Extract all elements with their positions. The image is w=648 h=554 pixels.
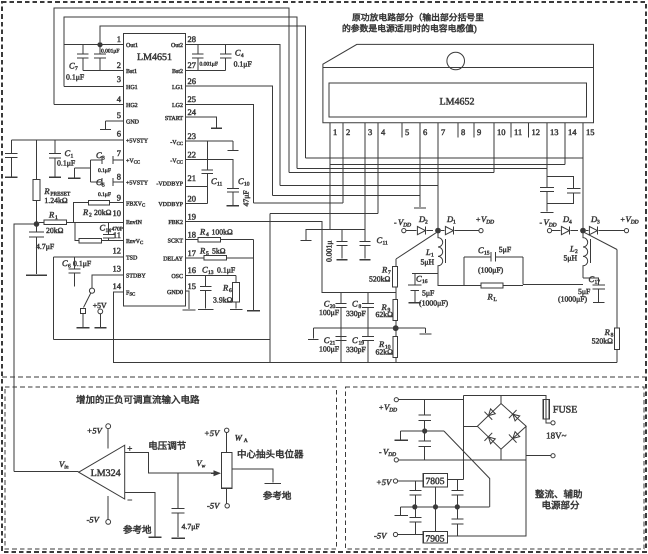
capacitor C17 5uF(1000uF) — [583, 278, 599, 285]
svg-text:0.1μF: 0.1μF — [73, 260, 91, 269]
svg-text:8: 8 — [359, 304, 362, 310]
diagonal wire to 7805 area — [444, 431, 490, 507]
svg-text:+5V: +5V — [204, 429, 220, 439]
bus row to U2 pin7 — [280, 184, 438, 186]
svg-text:14: 14 — [106, 228, 112, 234]
bus row to U2 pin2 — [254, 202, 343, 204]
capacitor C6 0.1uF on TSD — [74, 257, 76, 269]
bus row to U2 pin14 — [330, 164, 565, 166]
resistor R2 20k pin9 to pin10 — [74, 203, 89, 223]
svg-text:R: R — [382, 265, 388, 275]
svg-text:17: 17 — [188, 249, 197, 259]
bus row to U2 pin6 — [273, 194, 420, 196]
bridge diode bottom-left — [484, 433, 496, 446]
svg-text:D: D — [447, 215, 454, 225]
svg-text:3.9kΩ: 3.9kΩ — [213, 296, 232, 305]
switch SW standby — [89, 288, 94, 293]
svg-text:C: C — [478, 246, 484, 256]
svg-text:1: 1 — [71, 153, 74, 159]
svg-text:6: 6 — [68, 263, 71, 269]
svg-text:18: 18 — [188, 230, 197, 240]
diode D3 — [586, 230, 588, 232]
svg-text:电压调节: 电压调节 — [148, 441, 186, 452]
wire pin14 Fsc to bottom rail — [114, 292, 618, 362]
svg-text:20kΩ: 20kΩ — [94, 209, 111, 218]
ground bar 4.7uF — [26, 274, 47, 276]
mid ground rail with dots — [400, 506, 489, 508]
U2 label plate — [329, 83, 586, 117]
svg-text:原功放电路部分（输出部分括号里: 原功放电路部分（输出部分括号里 — [352, 13, 484, 23]
capacitor C5 0.1uF at pin8 — [91, 181, 102, 183]
wire TSD down to ground rail y339 — [52, 257, 54, 339]
svg-text:11: 11 — [217, 181, 222, 187]
svg-text:15: 15 — [586, 128, 595, 138]
svg-text:6: 6 — [229, 288, 232, 294]
ground left of mid row — [312, 328, 314, 338]
wire bridge top corner row — [463, 395, 502, 397]
svg-text:330pF: 330pF — [346, 346, 366, 355]
svg-text:16: 16 — [422, 279, 428, 285]
svg-text:13: 13 — [208, 270, 214, 276]
svg-text:8: 8 — [461, 128, 465, 138]
svg-text:2: 2 — [117, 61, 121, 71]
svg-text:(1000μF): (1000μF) — [558, 295, 587, 304]
svg-text:18V~: 18V~ — [546, 431, 566, 441]
ground right of mid row — [425, 328, 427, 333]
svg-text:520kΩ: 520kΩ — [592, 337, 613, 346]
bus row U2 pin4 with long drop — [270, 213, 378, 215]
svg-text:Bst1: Bst1 — [126, 68, 137, 75]
capacitor C21 100uF — [340, 328, 342, 336]
svg-text:4: 4 — [569, 219, 572, 225]
svg-text:R: R — [44, 187, 50, 197]
svg-text:C: C — [377, 236, 383, 246]
svg-text:SCKT: SCKT — [168, 237, 184, 244]
potentiometer WA body — [221, 453, 232, 489]
resistor R9 62k — [395, 293, 397, 300]
svg-text:16: 16 — [188, 266, 197, 276]
svg-text:C: C — [62, 259, 68, 269]
inductor L2 5uH — [583, 234, 588, 278]
svg-text:3: 3 — [117, 75, 121, 85]
svg-text:整流、辅助: 整流、辅助 — [535, 490, 583, 501]
svg-text:7805: 7805 — [426, 476, 445, 487]
svg-text:5μH: 5μH — [564, 254, 578, 263]
svg-text:10: 10 — [497, 128, 506, 138]
terminal 18V ac top — [551, 421, 555, 425]
svg-text:0.1μF: 0.1μF — [98, 192, 111, 198]
svg-text:的参数是电源适用时的电容电感值): 的参数是电源适用时的电容电感值) — [342, 24, 477, 34]
wire 7805 mid to 7905 — [435, 487, 437, 531]
power IC U2 LM4652 package outline — [323, 44, 594, 122]
svg-text:28: 28 — [188, 35, 197, 45]
resistor RL load — [480, 284, 482, 286]
svg-text:HG2: HG2 — [126, 102, 138, 109]
svg-text:−: − — [127, 495, 132, 505]
arrow into potentiometer — [211, 472, 220, 474]
wire pin27 Bst2 row — [186, 70, 226, 72]
node dot left output — [435, 228, 441, 234]
capacitor C10 47uF on pin22 net — [186, 159, 234, 188]
node dot Out1 — [97, 42, 102, 47]
bus row to U2 pin13 — [297, 168, 547, 170]
svg-text:L: L — [570, 244, 575, 254]
wire pin4 HG2 row — [54, 104, 123, 106]
diode D2 — [417, 227, 425, 235]
svg-text:C: C — [324, 299, 330, 309]
svg-text:D: D — [563, 215, 570, 225]
svg-text:电源部分: 电源部分 — [542, 500, 580, 511]
capacitor C4 0.1uF bootstrap right — [225, 45, 227, 54]
wire bridge left corner row — [463, 425, 478, 427]
svg-text:6: 6 — [423, 128, 427, 138]
svg-text:C: C — [352, 299, 358, 309]
wire plus input to divider — [125, 453, 211, 474]
svg-text:3: 3 — [102, 155, 105, 161]
svg-text:0.001μ: 0.001μ — [325, 240, 334, 262]
svg-text:VDDBYP: VDDBYP — [158, 201, 183, 208]
capacitor C3 0.1uF at pin7 +Vcc — [91, 159, 102, 161]
capacitor 0.001uF at U2 output node — [341, 230, 343, 242]
ground hanging from node row — [306, 230, 330, 240]
wire pin12 TSD row — [53, 256, 123, 258]
svg-text:7: 7 — [75, 66, 78, 72]
svg-text:3: 3 — [368, 128, 372, 138]
svg-text:+: + — [476, 216, 480, 225]
svg-text:LM324: LM324 — [91, 468, 121, 479]
svg-text:24: 24 — [188, 108, 197, 118]
svg-text:7905: 7905 — [426, 534, 445, 545]
capacitor C7 0.1uF bootstrap left — [82, 45, 84, 54]
bus row to U2 pin10 — [289, 172, 494, 174]
fuse FUSE — [502, 396, 551, 423]
svg-text:7: 7 — [441, 128, 446, 138]
wire HG-bus (y=17) from x64 vertical to bundle — [64, 17, 297, 168]
svg-text:4: 4 — [117, 95, 122, 105]
svg-text:GND: GND — [126, 118, 139, 125]
svg-text:520kΩ: 520kΩ — [369, 275, 390, 284]
capacitor C13 0.1uF on OSC — [205, 275, 207, 286]
svg-text:20: 20 — [188, 194, 197, 204]
resistor R1 20k input to pin10 — [39, 221, 44, 223]
svg-text:10: 10 — [113, 209, 122, 219]
svg-text:8: 8 — [117, 172, 121, 182]
svg-text:13: 13 — [550, 128, 559, 138]
svg-text:Out1: Out1 — [126, 42, 138, 49]
svg-text:4: 4 — [206, 232, 209, 238]
wire pin26 LG1 row to bundle — [186, 86, 273, 195]
wire pin3 HG1 row — [64, 86, 123, 88]
svg-text:FBK2: FBK2 — [168, 219, 183, 226]
svg-text:C: C — [352, 336, 358, 346]
svg-text:-5V: -5V — [374, 531, 388, 541]
U2 pin13/14 bypass caps cluster — [546, 138, 548, 188]
ground link C3/C5 — [90, 160, 92, 182]
svg-text:0.1μF: 0.1μF — [234, 60, 252, 69]
wire minus input to reference ground — [125, 492, 155, 536]
svg-text:21: 21 — [188, 174, 197, 184]
svg-text:1: 1 — [117, 35, 121, 45]
wire pin6 +5VSTY row — [11, 139, 123, 141]
svg-text:L: L — [494, 297, 498, 303]
wire Vin row to op-amp — [14, 470, 79, 472]
svg-text:STDBY: STDBY — [126, 272, 146, 279]
svg-text:19: 19 — [188, 212, 197, 222]
dashed box: bottom-right rectifier power supply — [346, 387, 645, 549]
node dot divider mid — [393, 325, 399, 331]
svg-text:-5V: -5V — [207, 501, 221, 511]
svg-text:R: R — [487, 292, 493, 302]
svg-text:Out2: Out2 — [171, 42, 183, 49]
terminal +Vdd right — [624, 229, 628, 233]
svg-text:62kΩ: 62kΩ — [376, 311, 393, 320]
svg-text:-: - — [394, 219, 397, 228]
regulator 7905 — [423, 532, 447, 543]
svg-text:LM4652: LM4652 — [440, 96, 475, 107]
svg-text:6: 6 — [117, 129, 121, 139]
svg-text:D: D — [591, 215, 598, 225]
capacitor C8 330pF — [367, 293, 369, 304]
svg-text:OSC: OSC — [171, 273, 183, 280]
svg-text:C: C — [69, 61, 75, 71]
svg-text:0.1μF: 0.1μF — [217, 266, 235, 275]
supply mid row with ground — [400, 430, 444, 432]
capacitor 0.001uF bootstrap (pin1-pin2) — [99, 47, 101, 54]
ground at pin 5 — [106, 120, 124, 122]
wire L1 to output node — [412, 273, 438, 275]
bridge diode bottom-right — [509, 430, 521, 443]
svg-text:22: 22 — [188, 150, 197, 160]
svg-text:C: C — [65, 149, 71, 159]
wire pin28 Out2 row to bus — [186, 45, 281, 186]
svg-text:11: 11 — [514, 128, 522, 138]
svg-text:9: 9 — [477, 128, 481, 138]
svg-text:R: R — [604, 328, 610, 338]
regulator 7805 — [423, 473, 447, 487]
svg-text:C: C — [211, 177, 217, 187]
capacitor 7805 input lower — [415, 507, 417, 517]
svg-text:DELAY: DELAY — [163, 255, 183, 262]
wire pin16 OSC row — [186, 274, 237, 276]
resistor R8 520k from right dot — [585, 233, 617, 250]
svg-text:C: C — [238, 177, 244, 187]
svg-text:TSD: TSD — [126, 254, 138, 261]
mid node row with caps — [313, 327, 393, 329]
capacitor C19 330pF — [367, 328, 369, 336]
svg-text:-VDDBYP: -VDDBYP — [156, 180, 183, 187]
capacitor C20 100uF — [340, 293, 342, 304]
svg-text:R: R — [83, 208, 89, 218]
svg-text:27: 27 — [188, 61, 197, 71]
svg-text:470P: 470P — [112, 226, 123, 232]
svg-text:12: 12 — [532, 128, 541, 138]
capacitor C15 5uF(100uF) bridging load — [463, 257, 465, 286]
svg-text:-5V: -5V — [87, 515, 101, 525]
svg-text:9: 9 — [117, 193, 121, 203]
svg-text:Bst2: Bst2 — [172, 68, 183, 75]
svg-text:4: 4 — [241, 53, 244, 59]
svg-text:14: 14 — [568, 128, 577, 138]
svg-text:3: 3 — [597, 219, 600, 225]
diode D1 — [441, 230, 444, 232]
terminal 18V ac bottom — [551, 454, 555, 458]
wire Vin tap to bottom box — [14, 224, 34, 471]
svg-text:+5V: +5V — [87, 426, 103, 436]
svg-text:330pF: 330pF — [346, 310, 366, 319]
svg-text:0.001μF: 0.001μF — [101, 48, 119, 54]
svg-text:(100μF): (100μF) — [478, 266, 503, 275]
capacitor supply filter upper+ — [424, 400, 426, 416]
svg-text:0.1μF: 0.1μF — [66, 73, 84, 82]
svg-text:11: 11 — [383, 240, 388, 246]
svg-text:C: C — [100, 223, 106, 233]
resistor RPRESET 1.24k vertical — [36, 140, 38, 179]
dashed separator between top amplifier section and bottom boxes — [2, 376, 646, 378]
svg-text:5μH: 5μH — [421, 258, 435, 267]
node dot supply mid — [422, 428, 427, 433]
node dot right output — [580, 228, 586, 234]
wire 7805 output — [448, 479, 464, 481]
svg-text:A: A — [244, 438, 248, 444]
resistor R3 parallel pin10-pin11 — [75, 222, 79, 240]
svg-text:R: R — [49, 210, 55, 220]
svg-text:15: 15 — [188, 282, 197, 292]
svg-text:C: C — [324, 336, 330, 346]
U2 mounting hole — [447, 52, 465, 70]
resistor R10 62k — [395, 331, 397, 337]
svg-text:13: 13 — [113, 264, 122, 274]
svg-text:1.24kΩ: 1.24kΩ — [44, 196, 67, 205]
svg-text:-: - — [540, 219, 543, 228]
svg-text:(1000μF): (1000μF) — [419, 299, 448, 308]
U2 pin1 vertical and 0.001 cap node row — [330, 138, 365, 230]
wire bridge right down to 7905 — [448, 426, 527, 536]
bridge bottom stub to -Vdd row — [500, 449, 502, 460]
capacitor C14 470pF pin10-pin11 — [108, 222, 110, 234]
svg-text:+: + — [621, 216, 625, 225]
wire pin19 FBK2 down to feedback node — [186, 222, 397, 293]
svg-text:100kΩ: 100kΩ — [212, 228, 233, 237]
svg-text:+: + — [379, 404, 383, 413]
ground stub at pin24 START — [186, 117, 217, 128]
svg-text:10: 10 — [244, 181, 250, 187]
svg-text:2: 2 — [89, 212, 92, 218]
capacitor C16 5uF(1000uF) — [414, 274, 416, 285]
feedback divider node row — [322, 292, 396, 294]
U2 pin ticks and numbers 1-15 — [329, 123, 331, 138]
svg-text:参考地: 参考地 — [123, 525, 152, 536]
svg-text:START: START — [165, 115, 183, 122]
diode D4 — [561, 227, 569, 235]
wire pin25 LG2 row to bundle — [186, 105, 254, 203]
svg-text:2: 2 — [346, 128, 350, 138]
svg-text:C: C — [589, 275, 595, 285]
svg-text:C: C — [96, 151, 102, 161]
svg-text:1: 1 — [55, 215, 58, 221]
wire pin20 VDDBYP row — [186, 203, 208, 205]
svg-text:D: D — [419, 215, 426, 225]
svg-text:EnvIN: EnvIN — [126, 219, 142, 226]
svg-text:5μF: 5μF — [499, 246, 512, 255]
svg-text:4.7μF: 4.7μF — [36, 243, 54, 252]
svg-text:增加的正负可调直流输入电路: 增加的正负可调直流输入电路 — [76, 395, 200, 406]
svg-text:+5VSTY: +5VSTY — [126, 179, 148, 186]
svg-text:5kΩ: 5kΩ — [212, 247, 226, 256]
bridge diode top-right — [509, 410, 521, 423]
wire pin1 Out1 row — [64, 44, 123, 46]
svg-text:5: 5 — [102, 182, 105, 188]
capacitor 4.7uF below dot — [36, 226, 38, 232]
svg-text:1: 1 — [453, 219, 456, 225]
bus row to U2 pin15 — [306, 157, 583, 159]
wire output row right channel — [523, 283, 583, 285]
svg-text:12: 12 — [113, 246, 122, 256]
svg-text:+5VSTY: +5VSTY — [126, 137, 148, 144]
svg-text:15: 15 — [484, 250, 490, 256]
svg-text:100μF: 100μF — [319, 309, 339, 318]
svg-text:20kΩ: 20kΩ — [46, 227, 63, 236]
wire pin13 STDBY — [92, 275, 123, 288]
svg-text:1: 1 — [333, 128, 337, 138]
inductor L1 5uH — [438, 234, 443, 274]
svg-text:+: + — [127, 444, 132, 454]
svg-text:0.1μF: 0.1μF — [57, 159, 75, 168]
svg-text:0.001μF: 0.001μF — [200, 61, 218, 67]
capacitor supply filter lower+ — [424, 434, 426, 442]
capacitor C1 0.1uF — [54, 140, 56, 153]
node dot preset/R1 junction — [34, 221, 40, 227]
svg-text:L: L — [426, 248, 431, 258]
svg-text:47μF: 47μF — [242, 190, 251, 206]
svg-text:14: 14 — [113, 282, 122, 292]
terminal +Vdd left — [479, 229, 483, 233]
op-amp U3 LM324 triangle — [79, 445, 125, 499]
capacitor C11 on U2 pin3 — [360, 240, 371, 242]
svg-text:C: C — [235, 48, 241, 58]
svg-text:GND0: GND0 — [167, 289, 183, 296]
svg-text:C: C — [202, 265, 208, 275]
dashed box: bottom-left DC input circuit — [5, 387, 337, 549]
capacitor 0.001uF bootstrap (pin28-pin27) — [197, 45, 199, 54]
U2 pin verticals down — [342, 138, 344, 203]
wire +Vdd vertical to bridge/7805 — [462, 396, 464, 480]
wire pin21 row — [186, 185, 208, 187]
svg-text:+5V: +5V — [376, 478, 392, 488]
wire Bst1 bus top (y=8) from left vertical to bundle — [54, 8, 289, 172]
svg-text:C: C — [96, 178, 102, 188]
ground at pin15 GND0 — [186, 291, 189, 309]
resistor R6 3.9k on OSC — [235, 275, 237, 282]
svg-text:5: 5 — [405, 128, 409, 138]
op-amp driver IC U1 LM4651 body — [123, 34, 185, 307]
svg-text:LG2: LG2 — [172, 102, 183, 109]
svg-text:23: 23 — [188, 132, 197, 142]
bridge rectifier diamond — [477, 404, 526, 450]
svg-text:R: R — [223, 283, 229, 293]
svg-text:5: 5 — [117, 111, 121, 121]
svg-text:4: 4 — [381, 128, 386, 138]
svg-text:1: 1 — [431, 252, 434, 258]
svg-text:5: 5 — [206, 251, 209, 257]
bridge diode top-left — [484, 407, 496, 420]
svg-text:4.7μF: 4.7μF — [182, 523, 200, 532]
svg-text:17: 17 — [595, 279, 601, 285]
capacitor 7805 output upper — [456, 480, 458, 491]
svg-text:HG1: HG1 — [126, 84, 138, 91]
resistor R5 5k on DELAY pin17 — [186, 257, 204, 259]
svg-text:R: R — [200, 246, 206, 256]
svg-text:LM4651: LM4651 — [137, 52, 172, 63]
